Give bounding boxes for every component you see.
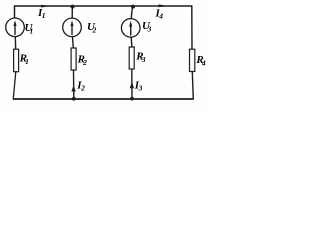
voltage source U2	[63, 18, 82, 37]
resistor R4	[190, 49, 195, 71]
wire branch2 upper (rail to U2)	[71, 6, 73, 18]
wire branch2 middle (U2 to R2)	[72, 37, 75, 49]
current arrow I2 on branch2 lower wire	[71, 85, 75, 92]
wire top rail	[14, 5, 192, 7]
svg-text:3: 3	[147, 25, 152, 34]
label I3	[134, 79, 143, 92]
label U1	[25, 22, 34, 36]
node dot top of branch 2	[71, 5, 75, 9]
wire bottom rail	[13, 98, 194, 100]
resistor R2	[71, 48, 76, 70]
svg-text:4: 4	[158, 12, 163, 21]
current arrow I4 on top rail	[159, 4, 169, 7]
label R2	[77, 53, 88, 67]
wire branch2 lower (R2 to bottom rail)	[73, 70, 75, 99]
node dot bottom of branch 3	[130, 97, 134, 101]
svg-text:1: 1	[30, 27, 34, 36]
resistor R3	[129, 47, 134, 69]
voltage source U3	[121, 19, 140, 38]
wire right branch upper (top corner to R4)	[191, 5, 193, 49]
label I1	[37, 7, 46, 20]
node dot bottom of branch 2	[72, 97, 76, 101]
wire branch3 middle (U3 to R3)	[130, 37, 133, 47]
label U3	[142, 20, 152, 34]
label R3	[135, 51, 146, 65]
current arrow I3 on branch3 lower wire	[130, 82, 134, 89]
wire branch3 lower (R3 to bottom rail)	[131, 69, 133, 99]
wire right branch lower (R4 to bottom rail)	[192, 72, 193, 100]
current arrow I1 on top rail	[41, 5, 51, 8]
wire left branch upper (top corner to U1)	[14, 5, 16, 18]
svg-text:2: 2	[82, 58, 87, 67]
label R1	[19, 53, 29, 67]
voltage source U1	[6, 18, 25, 37]
label I4	[155, 8, 164, 21]
label I2	[76, 80, 85, 93]
svg-text:3: 3	[138, 83, 143, 92]
label U2	[87, 21, 97, 35]
svg-text:1: 1	[25, 57, 29, 66]
svg-text:1: 1	[42, 11, 46, 20]
wire branch3 upper (rail to U3)	[131, 6, 132, 19]
resistor R1	[14, 49, 19, 71]
svg-text:2: 2	[92, 26, 97, 35]
wire left branch middle (U1 to R1)	[14, 37, 16, 50]
wire left branch lower (R1 to bottom rail)	[13, 72, 16, 100]
svg-text:2: 2	[80, 84, 85, 93]
label R4	[195, 54, 206, 68]
node dot top of branch 3	[131, 5, 135, 9]
svg-text:3: 3	[141, 55, 146, 64]
svg-text:4: 4	[201, 58, 206, 67]
